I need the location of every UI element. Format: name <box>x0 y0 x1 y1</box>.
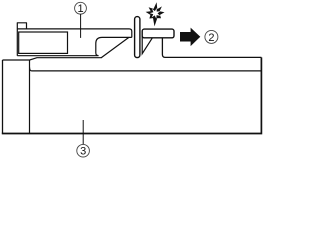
base plate left step vertical <box>29 60 31 134</box>
label circle 3 <box>77 144 90 157</box>
spark burst black star <box>146 2 165 26</box>
electrode pin <box>135 17 140 58</box>
leader line 3 <box>82 120 84 145</box>
carriage inner rectangle <box>19 32 68 53</box>
carriage 1 body outline <box>17 23 132 56</box>
label circle 2 <box>205 30 218 43</box>
base plate 3 outer outline <box>3 58 102 60</box>
svg-text:2: 2 <box>208 32 214 44</box>
motion arrow 2 <box>180 28 200 46</box>
svg-text:1: 1 <box>78 3 84 15</box>
label circle 1 <box>75 2 87 14</box>
base plate inner top edge <box>30 68 262 71</box>
spark burst white core <box>150 8 161 19</box>
head bar foot wedge <box>142 36 152 54</box>
carriage slanted face diagonal <box>101 38 129 58</box>
leader line 1 <box>80 14 82 38</box>
head bar <box>142 29 174 38</box>
svg-text:3: 3 <box>80 146 86 158</box>
support post and base top right edge <box>162 38 261 58</box>
